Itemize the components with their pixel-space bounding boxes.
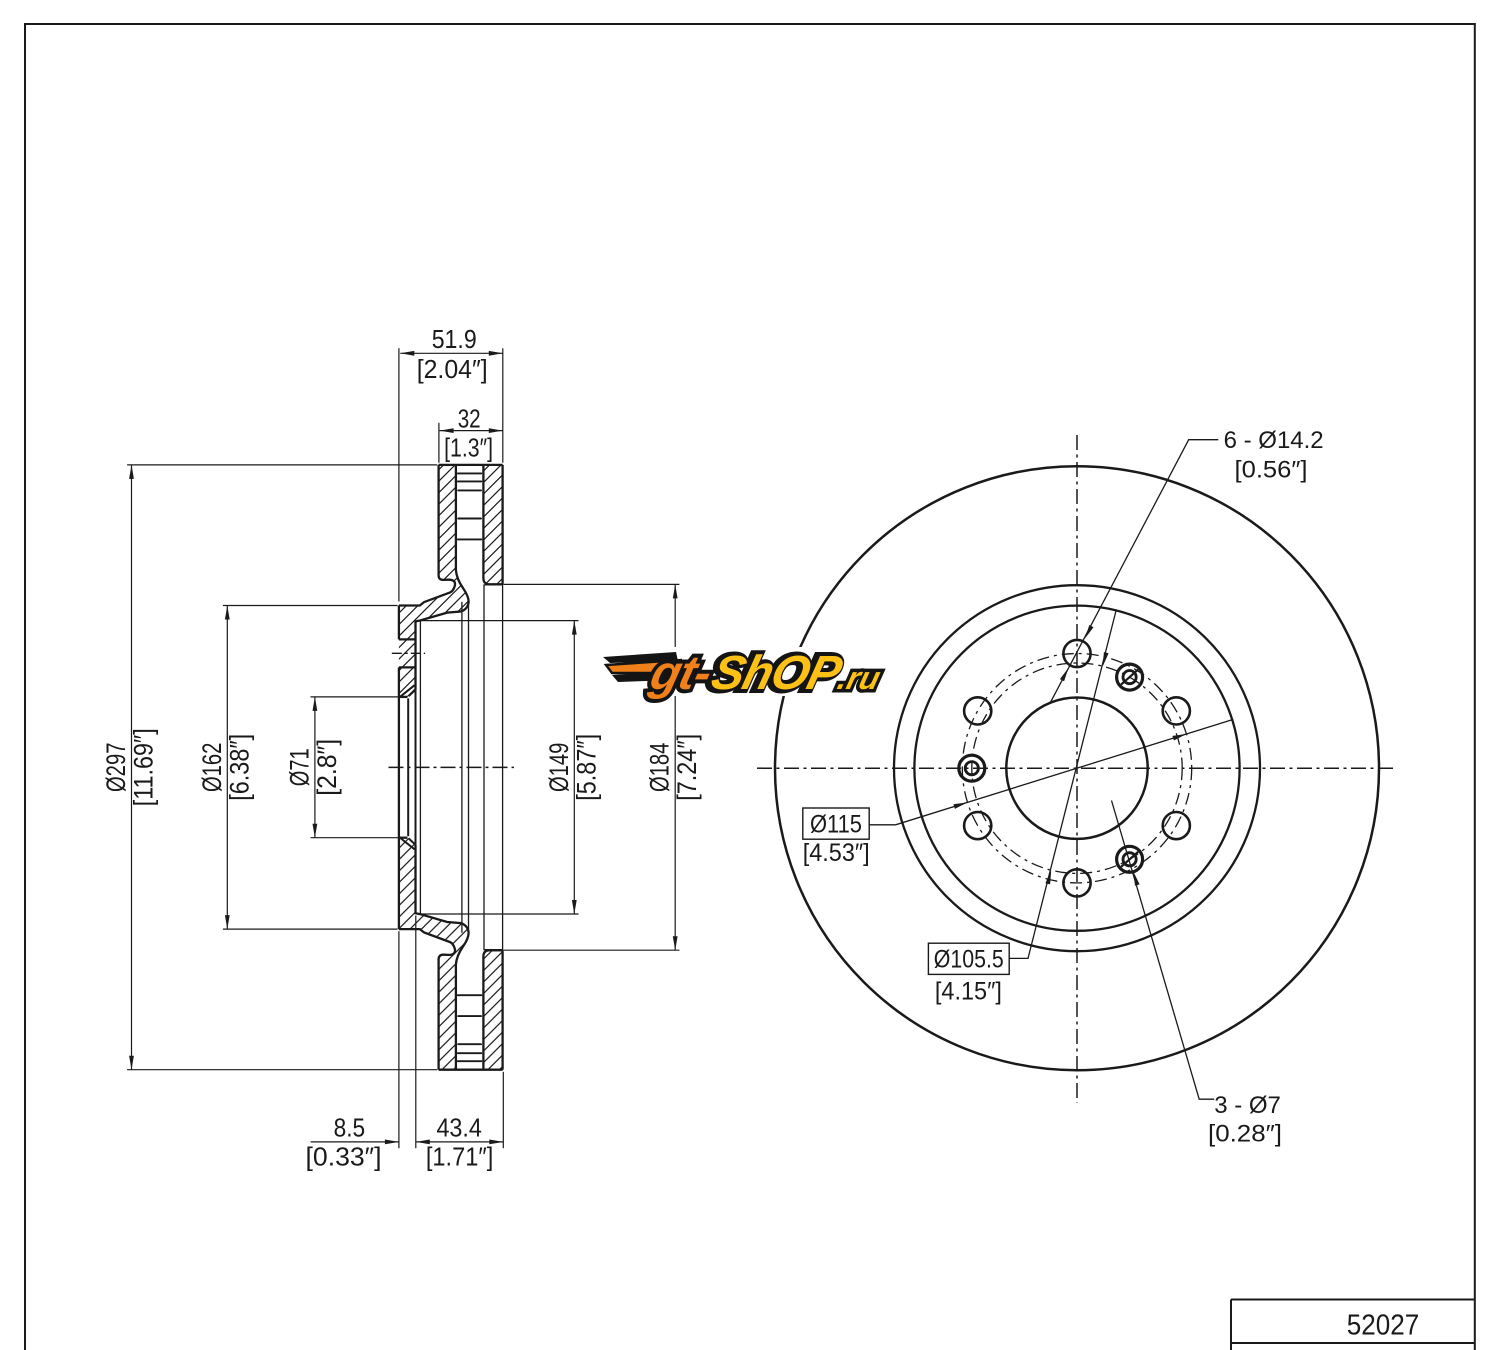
- svg-text:Ø115: Ø115: [810, 810, 862, 838]
- svg-text:52027: 52027: [1347, 1310, 1420, 1342]
- circle Ø162 (hat): [914, 606, 1239, 931]
- svg-text:[4.15″]: [4.15″]: [935, 978, 1002, 1006]
- bolt hole centerline: [392, 652, 425, 654]
- left view axis centerline: [389, 766, 515, 768]
- circle Ø105.5 (dash-dot): [972, 663, 1182, 873]
- svg-text:[6.38″]: [6.38″]: [224, 734, 254, 801]
- svg-text:[1.3″]: [1.3″]: [444, 435, 493, 463]
- dimension Ø297: [131, 465, 133, 1070]
- bolt circle Ø115 (dash-dot): [962, 654, 1191, 883]
- box Ø115: [803, 808, 869, 839]
- 3 screw holes Ø7: [959, 664, 1143, 872]
- svg-text:[7.24″]: [7.24″]: [672, 734, 702, 801]
- logo speed streaks: [603, 652, 684, 682]
- svg-text:ShOP: ShOP: [706, 647, 847, 700]
- center bore Ø71: [1006, 698, 1147, 839]
- hatched cross-section fills: [399, 465, 469, 697]
- dimension Ø184: [674, 584, 676, 950]
- title block: [1231, 1300, 1475, 1350]
- svg-text:[0.33″]: [0.33″]: [306, 1144, 382, 1172]
- svg-text:[0.28″]: [0.28″]: [1208, 1121, 1282, 1148]
- svg-text:[4.53″]: [4.53″]: [803, 839, 870, 867]
- svg-text:32: 32: [458, 405, 481, 433]
- svg-text:3 - Ø7: 3 - Ø7: [1214, 1092, 1281, 1119]
- leader Ø115 (diameter line): [869, 719, 1233, 824]
- svg-text:43.4: 43.4: [436, 1115, 482, 1143]
- svg-text:Ø71: Ø71: [284, 748, 314, 786]
- gt-shop.ru watermark logo: [597, 647, 900, 696]
- svg-text:[5.87″]: [5.87″]: [571, 734, 601, 801]
- leader 3-Ø7: [1112, 801, 1215, 1100]
- outer circle Ø297: [775, 466, 1379, 1070]
- leader Ø105.5 (diameter line): [1009, 610, 1116, 958]
- svg-text:Ø105.5: Ø105.5: [934, 946, 1004, 974]
- svg-text:[1.71″]: [1.71″]: [426, 1144, 494, 1172]
- dimension Ø149: [573, 621, 575, 914]
- dimension 51.9 / 2.04": [399, 348, 503, 601]
- svg-text:[2.8″]: [2.8″]: [312, 739, 342, 796]
- leader 6-Ø14.2: [1051, 440, 1219, 702]
- box Ø105.5: [928, 943, 1009, 974]
- hat mounting face line (with bolt hole gap): [399, 606, 416, 930]
- dimensions 8.5 / 43.4: [311, 916, 504, 1149]
- svg-text:Ø297: Ø297: [101, 743, 131, 793]
- svg-text:8.5: 8.5: [334, 1115, 366, 1143]
- 6 bolt holes Ø14.2: [964, 640, 1190, 897]
- svg-text:51.9: 51.9: [432, 326, 477, 354]
- dimension Ø162: [226, 606, 228, 930]
- dimension Ø71: [314, 697, 316, 838]
- section outlines top half: [127, 465, 679, 711]
- svg-text:6 - Ø14.2: 6 - Ø14.2: [1224, 427, 1324, 454]
- svg-text:Ø184: Ø184: [645, 743, 675, 793]
- svg-text:[0.56″]: [0.56″]: [1235, 457, 1308, 484]
- background edge lines seen through cavity: [408, 584, 502, 950]
- front view centerlines: [757, 435, 1397, 1103]
- bolt hole edges in flange: [399, 639, 416, 667]
- svg-text:[11.69″]: [11.69″]: [129, 728, 159, 806]
- svg-text:Ø162: Ø162: [197, 743, 227, 793]
- svg-text:Ø149: Ø149: [544, 743, 574, 793]
- svg-text:[2.04″]: [2.04″]: [417, 356, 488, 384]
- section outlines bottom half (mirror): [127, 824, 679, 1070]
- circle Ø184 (friction inner): [894, 585, 1260, 951]
